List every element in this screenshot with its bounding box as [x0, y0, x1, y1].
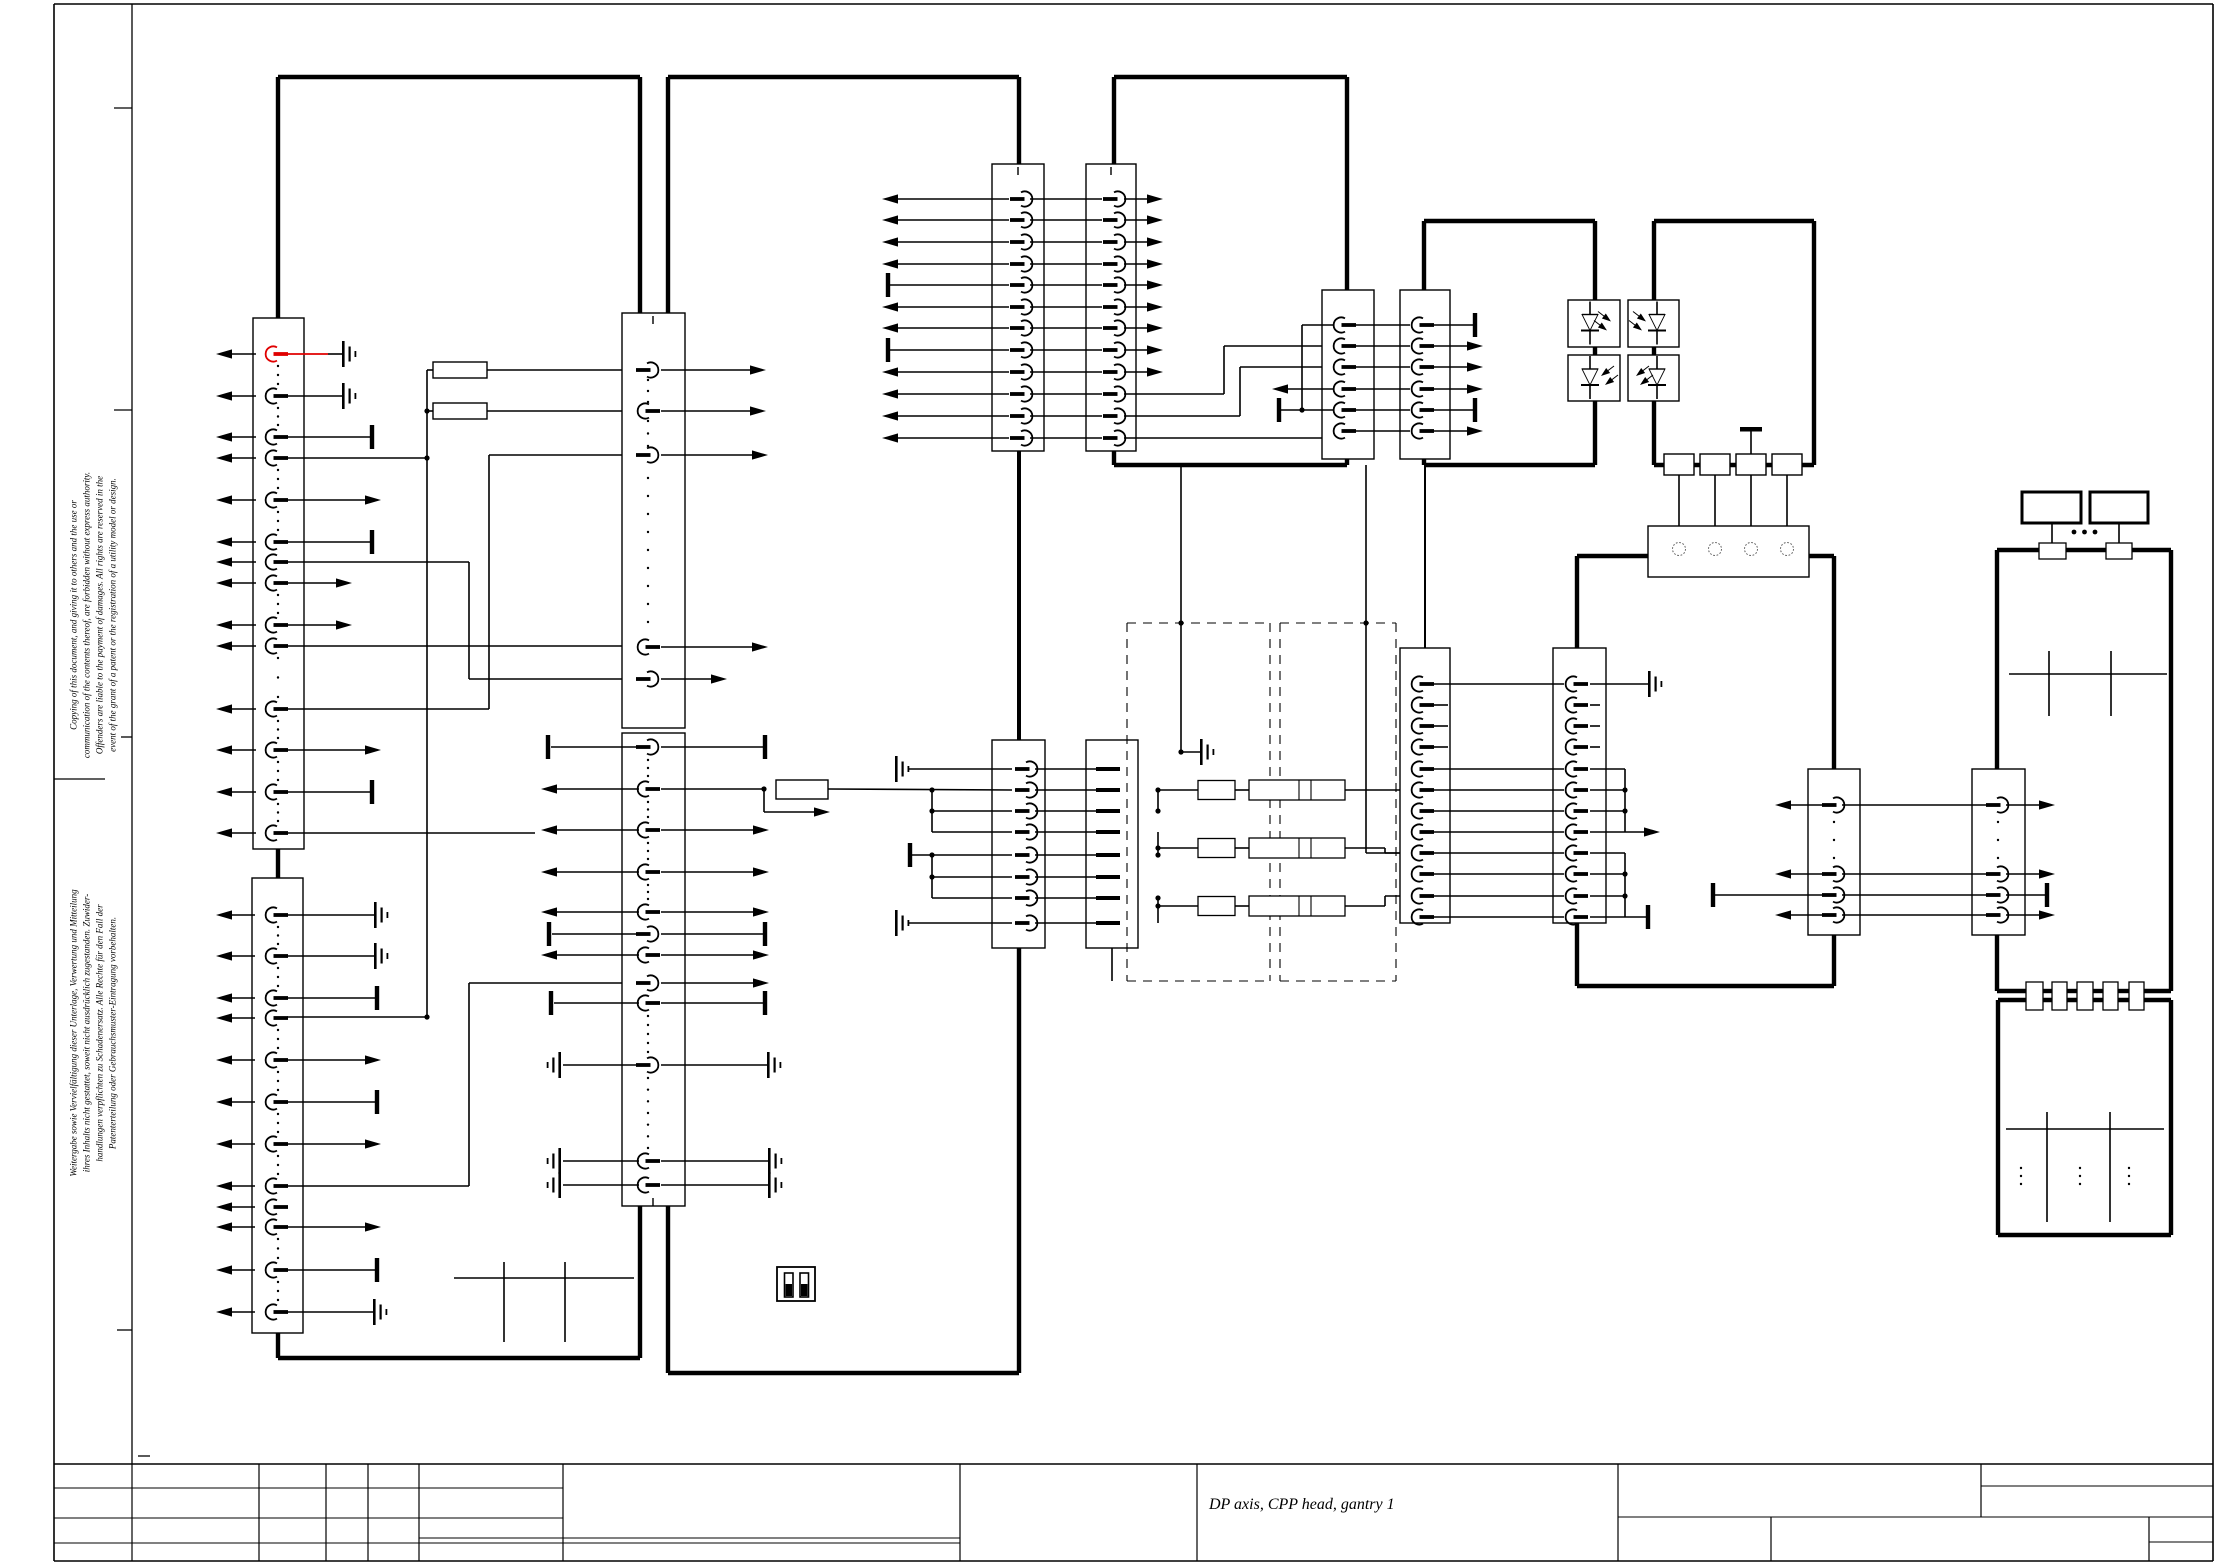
wire X5.10 to X6.2	[1124, 393, 1224, 395]
svg-text:event of the grant of a patent: event of the grant of a patent or the re…	[108, 478, 118, 752]
copyright notice (german, rotated)	[69, 889, 118, 1177]
terminal bar X1 pin11	[370, 780, 374, 804]
terminal bar X2 pin3	[375, 986, 379, 1010]
connector strip X1 (upper left)	[253, 318, 304, 849]
X4 left wires with arrows	[896, 198, 1009, 200]
terminal bar X2 pin6	[375, 1090, 379, 1114]
X3b left arrows	[555, 788, 639, 790]
wire resistor bus	[426, 370, 428, 458]
module box E outline (thick)	[1997, 548, 2039, 552]
frame inner column line	[131, 4, 133, 1464]
X14 terminal bar	[2006, 894, 2045, 896]
X2 pin1 wire	[287, 914, 374, 916]
shield drain wire 1	[1178, 620, 1183, 625]
resistor R2	[433, 403, 487, 419]
X13 left arrows	[1789, 804, 1822, 806]
wire X1.10 to X3.4	[287, 645, 637, 647]
X2 pin3 wire	[287, 997, 375, 999]
drawing frame border	[54, 3, 2213, 5]
X2 pin10 wire	[287, 1269, 375, 1271]
filter chain F1	[1158, 789, 1198, 791]
svg-text:DP axis, CPP head, gantry 1: DP axis, CPP head, gantry 1	[1208, 1496, 1395, 1513]
ground at X1 pin1	[342, 341, 345, 367]
X2 left-side wires with arrows	[230, 914, 255, 916]
X1 pin11 wire	[287, 791, 370, 793]
wire X5.12 to X6.6	[1124, 437, 1333, 439]
svg-text:Copying of this document, and: Copying of this document, and giving it …	[69, 500, 79, 730]
DIP switch S1	[777, 1267, 815, 1301]
connector strip X7	[1400, 290, 1450, 459]
box F ellipsis columns	[2020, 1167, 2022, 1169]
X1 pin12 wire	[287, 832, 535, 834]
X3b pin6 terminal bars	[552, 933, 639, 935]
copyright notice (english, rotated)	[69, 472, 118, 758]
terminal cross structure	[454, 1277, 634, 1279]
shield drain wire 2	[1363, 620, 1368, 625]
X12 bus 2 with terminal	[1590, 852, 1625, 854]
terminal bar X2 pin10	[375, 1258, 379, 1282]
connector strip X9	[992, 740, 1045, 948]
cable shield dashed box 1	[1127, 622, 1270, 624]
module box D outline (thick)	[1577, 554, 1648, 558]
cable shield dashed box 2	[1280, 622, 1396, 624]
X6-X7 interconnect wires	[1356, 324, 1410, 326]
module box C1 outline (thick)	[1424, 219, 1595, 223]
X5 right wires with arrows	[1124, 198, 1149, 200]
svg-text:Weitergabe sowie Vervielfältig: Weitergabe sowie Vervielfältigung dieser…	[69, 889, 79, 1177]
X1 pin5 wire arrow	[287, 499, 367, 501]
ground at X2 pin2	[374, 943, 377, 969]
ground at shield 1	[1200, 739, 1203, 765]
ground at X1 pin2	[342, 383, 345, 409]
svg-text:ihres Inhalts nicht gestattet,: ihres Inhalts nicht gestattet, soweit ni…	[82, 894, 92, 1172]
optocoupler U1 LED	[1568, 300, 1620, 347]
X3b pin9 terminal bars	[554, 1002, 639, 1004]
connector strip X13	[1808, 769, 1860, 935]
wire X3.8 to X2.8	[469, 982, 637, 984]
wire box C1 to X11	[1424, 465, 1426, 648]
X14 right arrows	[2006, 804, 2041, 806]
filter block row on C2 bottom	[1664, 454, 1694, 475]
svg-text:handlungen verpflichten zu Sch: handlungen verpflichten zu Schadenersatz…	[95, 904, 105, 1162]
X12 bus 1 with arrow	[1590, 768, 1625, 770]
ground at X2 pin1	[374, 902, 377, 928]
ground to X9.1	[909, 768, 1012, 770]
component K2 (thick box)	[2090, 492, 2148, 523]
capacitor cross in box E	[2009, 673, 2167, 675]
module box B1 outline (thick)	[1114, 75, 1347, 79]
ground at X2 pin11	[373, 1299, 376, 1325]
svg-text:Offenders are liable to the pa: Offenders are liable to the payment of d…	[95, 476, 105, 754]
resistor R3 chain	[661, 788, 764, 790]
wire X3.3 to X1 via bus	[287, 708, 489, 710]
box F interior lines	[2006, 1128, 2164, 1130]
connector strip X2 (lower left)	[252, 878, 303, 1333]
component K1 (thick box)	[2022, 492, 2081, 523]
connector strip X3a (middle)	[622, 313, 685, 728]
resistor R1	[433, 362, 487, 378]
X3b pin12 grounds	[563, 1184, 639, 1186]
frame tick marks	[114, 107, 132, 109]
X2 pin9 wire arrow	[287, 1226, 367, 1228]
terminal bar X1 pin3	[370, 425, 374, 449]
terminal row on box E bottom	[2026, 982, 2043, 1010]
module box F outline (thick)	[1998, 998, 2171, 1002]
ellipsis dots	[2072, 530, 2077, 535]
terminal block on box E top	[2039, 543, 2066, 559]
X1 pin6 wire	[287, 541, 370, 543]
wire X5.11 to X6.3	[1124, 415, 1240, 417]
X1 pin8 wire arrow	[287, 582, 338, 584]
X1 pin9 wire arrow	[287, 624, 338, 626]
connector strip X12	[1553, 648, 1606, 923]
filter block lead wires	[1678, 475, 1680, 543]
optocoupler U1 photodiode	[1628, 300, 1679, 347]
optocoupler U2 LED	[1628, 355, 1679, 401]
X3b right arrows	[661, 829, 755, 831]
ground to X9.8	[909, 922, 1012, 924]
X2 pin5 wire arrow	[287, 1059, 367, 1061]
filter chain F3	[1158, 905, 1198, 907]
X6 pin4 left arrow	[1286, 388, 1333, 390]
svg-text:Patenterteilung oder Gebrauchs: Patenterteilung oder Gebrauchsmuster-Ein…	[108, 917, 118, 1150]
X1 pin3 wire	[287, 436, 370, 438]
X3b pin10 grounds	[563, 1064, 639, 1066]
X2 pin7 wire arrow	[287, 1143, 367, 1145]
module box A1 outline (thick)	[278, 75, 640, 79]
optocoupler U2 photodiode	[1568, 355, 1620, 401]
X1 pin1 red wire	[287, 353, 328, 355]
X1 pin10 wire arrow	[287, 749, 367, 751]
svg-text:communication of the contents: communication of the contents thereof, a…	[82, 472, 92, 758]
X7 right wires	[1434, 324, 1473, 326]
X13 terminal bar	[1711, 883, 1715, 907]
filter chain F2	[1158, 847, 1198, 849]
connector strip X3b (middle lower)	[622, 733, 685, 1206]
connector box X8 with socket circles	[1648, 526, 1809, 577]
terminal bar above filter block	[1740, 427, 1762, 432]
connector strip X10	[1086, 740, 1138, 948]
X3b pin11 grounds	[563, 1160, 639, 1162]
connector strip X4 (top middle)	[992, 164, 1044, 451]
X2 pin2 wire	[287, 955, 374, 957]
module box A2 outline (thick)	[668, 75, 1019, 79]
X1 pin2 wire	[287, 395, 342, 397]
module box C2 outline (thick)	[1654, 219, 1814, 223]
K1 K2 lead wires	[2051, 523, 2053, 543]
connector strip X6	[1322, 290, 1374, 459]
wire X1.7 to X3.5	[287, 561, 469, 563]
branch arrow from R3	[763, 789, 765, 812]
connector strip X11	[1400, 648, 1450, 923]
X3a right arrows	[661, 369, 752, 371]
connector strip X14	[1972, 769, 2025, 935]
wire X1.4 to X2.4 via bus	[287, 457, 427, 459]
connector strip X5 (top middle)	[1086, 164, 1136, 451]
X9-X10 interconnect wires	[1035, 768, 1096, 770]
X3b pin1 terminal bars	[551, 746, 639, 748]
X12 pin1 ground wire	[1590, 683, 1648, 685]
title block table	[54, 1463, 2213, 1465]
X1 left-side wires with arrows	[230, 353, 256, 355]
terminal bar and bus at X6	[1277, 398, 1281, 422]
terminal bar X1 pin6	[370, 530, 374, 554]
terminal bar bus to X9	[908, 843, 912, 867]
X11-X12 interconnect wires	[1434, 683, 1564, 685]
X13-X14 interconnect wires	[1842, 804, 1986, 806]
X4-X5 interconnect wires	[1030, 198, 1102, 200]
X2 pin11 wire	[287, 1311, 373, 1313]
X2 pin6 wire	[287, 1101, 375, 1103]
